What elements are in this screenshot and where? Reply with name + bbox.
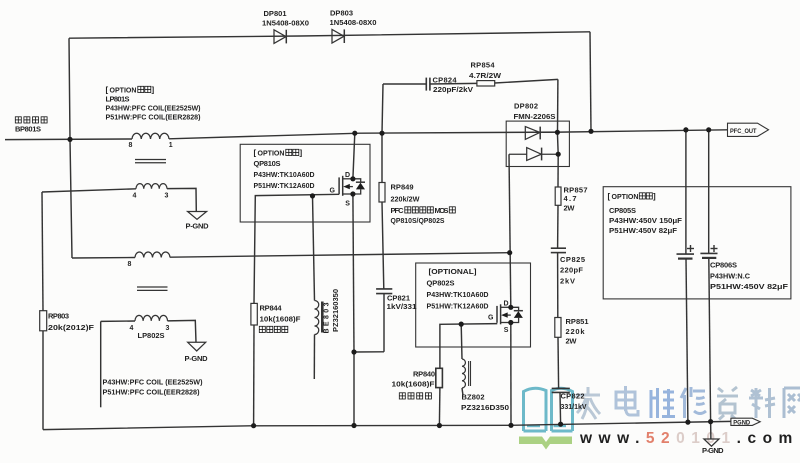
svg-text:P-GND: P-GND bbox=[185, 354, 209, 363]
svg-text:10k(1608)F: 10k(1608)F bbox=[260, 315, 301, 324]
svg-text:331/1kV: 331/1kV bbox=[561, 402, 587, 411]
svg-text:OPTION: OPTION bbox=[258, 149, 285, 158]
svg-text:D: D bbox=[504, 300, 509, 307]
svg-text:3: 3 bbox=[165, 193, 169, 200]
svg-text:P43HW:TK10A60D: P43HW:TK10A60D bbox=[427, 290, 490, 299]
svg-text:[: [ bbox=[106, 86, 109, 95]
svg-text:D: D bbox=[345, 172, 350, 179]
svg-text:RP851: RP851 bbox=[566, 317, 589, 326]
svg-text:20k(2012)F: 20k(2012)F bbox=[48, 323, 94, 332]
svg-text:CP805S: CP805S bbox=[609, 206, 636, 215]
svg-text:4: 4 bbox=[130, 325, 134, 332]
svg-text:P51HW:PFC COIL(EER2828): P51HW:PFC COIL(EER2828) bbox=[106, 113, 201, 122]
svg-text:QP810S: QP810S bbox=[254, 159, 281, 168]
svg-text:PZ3216D350: PZ3216D350 bbox=[461, 403, 509, 412]
svg-text:PZ32160350: PZ32160350 bbox=[333, 289, 340, 332]
svg-text:RP803: RP803 bbox=[48, 312, 69, 321]
svg-text:P43HW:TK10A60D: P43HW:TK10A60D bbox=[254, 170, 316, 179]
svg-text:OPTION: OPTION bbox=[612, 192, 639, 201]
svg-text:PFC_OUT: PFC_OUT bbox=[730, 128, 757, 135]
svg-text:S: S bbox=[345, 201, 350, 208]
svg-text:8: 8 bbox=[128, 261, 132, 268]
svg-text:P43HW:450V 150μF: P43HW:450V 150μF bbox=[609, 216, 682, 225]
svg-text:4.7R/2W: 4.7R/2W bbox=[469, 71, 502, 80]
svg-text:220pF/2kV: 220pF/2kV bbox=[433, 85, 473, 94]
svg-text:1kV/331: 1kV/331 bbox=[387, 302, 417, 311]
svg-text:LP801S: LP801S bbox=[106, 95, 130, 104]
svg-text:10k(1608)F: 10k(1608)F bbox=[392, 380, 435, 389]
svg-text:P43HW:N.C: P43HW:N.C bbox=[710, 272, 751, 281]
svg-text:CP825: CP825 bbox=[560, 255, 585, 264]
svg-text:BE803: BE803 bbox=[324, 302, 331, 333]
svg-text:PGND: PGND bbox=[733, 419, 750, 426]
svg-text:P-GND: P-GND bbox=[702, 446, 724, 455]
svg-text:G: G bbox=[488, 315, 494, 322]
svg-text:P51HW:450V 82μF: P51HW:450V 82μF bbox=[710, 282, 788, 291]
svg-text:BZ802: BZ802 bbox=[462, 393, 485, 402]
svg-text:[OPTIONAL]: [OPTIONAL] bbox=[429, 267, 478, 276]
svg-text:2W: 2W bbox=[566, 337, 578, 346]
svg-text:P43HW:PFC COIL (EE2525W): P43HW:PFC COIL (EE2525W) bbox=[103, 378, 203, 387]
svg-text:RP844: RP844 bbox=[260, 304, 283, 313]
svg-text:220k/2W: 220k/2W bbox=[391, 195, 421, 204]
svg-text:www.520101.com: www.520101.com bbox=[579, 430, 799, 447]
svg-text:RP854: RP854 bbox=[471, 61, 496, 70]
svg-text:OPTION: OPTION bbox=[110, 86, 137, 95]
svg-text:4.7: 4.7 bbox=[564, 194, 577, 203]
svg-text:1N5408-08X0: 1N5408-08X0 bbox=[330, 18, 377, 27]
svg-text:P51HW:PFC COIL(EER2828): P51HW:PFC COIL(EER2828) bbox=[103, 388, 200, 397]
svg-text:]: ] bbox=[653, 192, 656, 201]
svg-text:CP822: CP822 bbox=[561, 392, 585, 401]
svg-text:RP849: RP849 bbox=[391, 183, 414, 192]
svg-text:220k: 220k bbox=[566, 327, 586, 336]
svg-text:DP803: DP803 bbox=[330, 9, 353, 18]
svg-text:FMN-2206S: FMN-2206S bbox=[514, 112, 556, 121]
svg-text:P-GND: P-GND bbox=[186, 222, 210, 231]
svg-text:2W: 2W bbox=[564, 204, 576, 213]
svg-text:QP802S: QP802S bbox=[427, 279, 455, 288]
svg-text:DP801: DP801 bbox=[264, 9, 287, 18]
svg-text:220pF: 220pF bbox=[560, 266, 583, 275]
svg-text:P43HW:PFC COIL(EE2525W): P43HW:PFC COIL(EE2525W) bbox=[106, 104, 201, 113]
svg-text:QP810S/QP802S: QP810S/QP802S bbox=[391, 216, 445, 225]
svg-text:RP840: RP840 bbox=[413, 370, 435, 379]
svg-text:1N5408-08X0: 1N5408-08X0 bbox=[262, 19, 309, 28]
svg-text:[: [ bbox=[254, 149, 257, 158]
svg-text:]: ] bbox=[152, 86, 155, 95]
svg-text:LP802S: LP802S bbox=[138, 331, 165, 340]
svg-text:P51HW:TK12A60D: P51HW:TK12A60D bbox=[427, 302, 490, 311]
svg-text:BP801S: BP801S bbox=[15, 125, 41, 134]
svg-text:P51HW:TK12A60D: P51HW:TK12A60D bbox=[254, 181, 316, 190]
svg-text:1: 1 bbox=[169, 142, 173, 149]
svg-text:CP806S: CP806S bbox=[710, 261, 737, 270]
svg-text:4: 4 bbox=[133, 193, 137, 200]
svg-text:S: S bbox=[504, 327, 509, 334]
svg-text:2kV: 2kV bbox=[560, 277, 575, 286]
svg-text:8: 8 bbox=[129, 142, 133, 149]
svg-text:CP824: CP824 bbox=[433, 76, 458, 85]
svg-text:P51HW:450V 82μF: P51HW:450V 82μF bbox=[609, 226, 677, 235]
svg-text:]: ] bbox=[300, 149, 303, 158]
svg-text:PFC: PFC bbox=[391, 206, 405, 215]
svg-text:MOS: MOS bbox=[435, 206, 449, 215]
svg-text:3: 3 bbox=[166, 325, 170, 332]
svg-text:[: [ bbox=[608, 192, 611, 201]
svg-text:DP802: DP802 bbox=[514, 102, 538, 111]
svg-text:G: G bbox=[330, 187, 336, 194]
